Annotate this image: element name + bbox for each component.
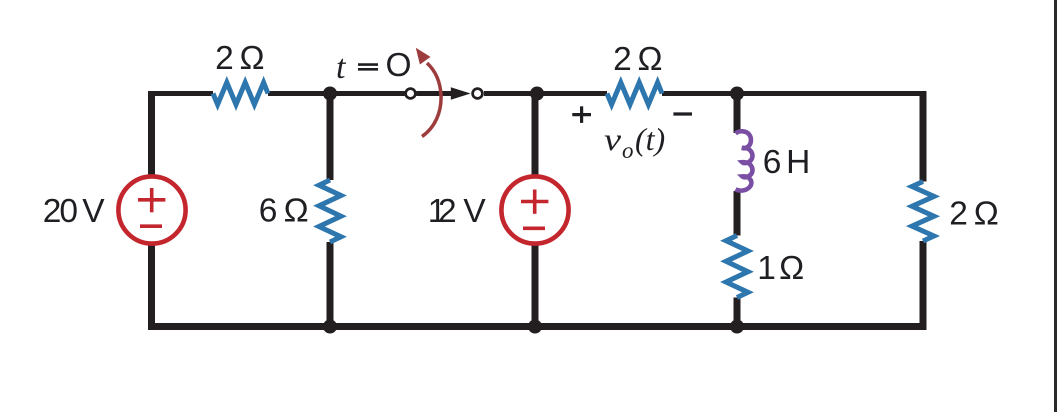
svg-text:vo(t): vo(t): [604, 121, 665, 163]
svg-text:6 H: 6 H: [763, 144, 811, 181]
svg-text:20 V: 20 V: [43, 193, 106, 230]
svg-text:t: t: [336, 49, 347, 86]
svg-text:2 Ω: 2 Ω: [949, 196, 999, 233]
svg-text:2 Ω: 2 Ω: [613, 41, 663, 78]
svg-text:12 V: 12 V: [428, 193, 487, 230]
svg-text:6 Ω: 6 Ω: [259, 193, 309, 230]
svg-text:1 Ω: 1 Ω: [757, 250, 804, 287]
svg-text:2 Ω: 2 Ω: [215, 40, 265, 77]
svg-text:O: O: [386, 47, 412, 84]
